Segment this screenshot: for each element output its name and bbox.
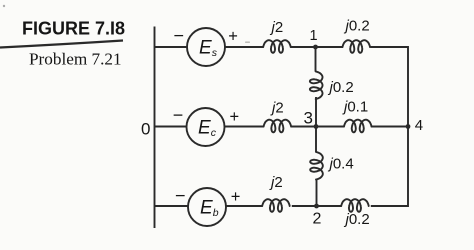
smudge bbox=[245, 42, 250, 43]
wire mid row coil to node 3 to coil bbox=[291, 126, 344, 128]
svg-text:j2: j2 bbox=[270, 19, 284, 36]
svg-text:−: − bbox=[174, 26, 185, 46]
svg-text:j0.4: j0.4 bbox=[328, 156, 354, 173]
svg-text:−: − bbox=[173, 105, 184, 125]
svg-text:2: 2 bbox=[313, 210, 322, 227]
inductor j0.4 vertical bbox=[310, 152, 323, 180]
wire mid row coil to node 4 bbox=[371, 126, 408, 128]
wire bottom row source to coil bbox=[226, 205, 262, 207]
wire top row left stub bbox=[155, 46, 188, 48]
wire bottom row left stub bbox=[155, 205, 188, 207]
inductor j2 bottom bbox=[262, 199, 290, 212]
svg-text:1: 1 bbox=[310, 28, 318, 44]
left bus wire bbox=[154, 27, 156, 229]
right bus wire bbox=[370, 47, 408, 206]
svg-text:Problem 7.21: Problem 7.21 bbox=[29, 50, 122, 69]
svg-text:j2: j2 bbox=[270, 100, 284, 117]
caption underline rule bbox=[0, 41, 123, 48]
svg-text:4: 4 bbox=[415, 117, 423, 134]
wire node 3 to vertical coil bbox=[315, 127, 317, 153]
wire vertical coil to node 3 bbox=[315, 97, 317, 127]
svg-text:+: + bbox=[228, 28, 238, 46]
source Eb bbox=[188, 188, 226, 226]
wire vertical coil to node 2 bbox=[316, 179, 318, 207]
inductor j0.2 vertical bbox=[310, 72, 323, 100]
inductor j0.2 top bbox=[343, 40, 371, 53]
source Ec bbox=[187, 108, 225, 146]
wire mid row left stub bbox=[155, 126, 187, 128]
svg-text:Eb: Eb bbox=[200, 198, 219, 220]
inductor j0.1 bbox=[344, 120, 372, 133]
wire top row source to coil bbox=[225, 46, 263, 48]
node 2 junction bbox=[314, 204, 319, 209]
svg-text:j0.2: j0.2 bbox=[328, 79, 354, 96]
inductor j2 mid bbox=[264, 120, 292, 133]
svg-text:j0.2: j0.2 bbox=[344, 211, 370, 228]
speck bbox=[3, 5, 5, 7]
svg-text:+: + bbox=[231, 188, 241, 206]
wire bottom row coil to node 2 to coil bbox=[292, 205, 341, 207]
svg-text:Ec: Ec bbox=[198, 118, 217, 140]
source Es bbox=[187, 28, 225, 66]
svg-text:−: − bbox=[175, 186, 186, 206]
node 1 junction bbox=[313, 45, 318, 50]
node 3 junction bbox=[314, 124, 319, 129]
wire top row coil to node 1 to coil bbox=[291, 46, 343, 48]
svg-text:0: 0 bbox=[141, 119, 150, 138]
wire mid row source to coil bbox=[225, 126, 264, 128]
node 4 junction bbox=[406, 124, 411, 129]
svg-text:j0.1: j0.1 bbox=[342, 99, 368, 116]
svg-text:j0.2: j0.2 bbox=[344, 18, 370, 35]
svg-text:Es: Es bbox=[199, 38, 218, 60]
inductor j2 top bbox=[263, 40, 291, 53]
svg-text:j2: j2 bbox=[269, 174, 283, 191]
svg-text:+: + bbox=[230, 108, 240, 126]
wire node 1 to vertical coil bbox=[315, 47, 317, 72]
inductor j0.2 bottom bbox=[341, 199, 369, 212]
svg-text:FIGURE 7.I8: FIGURE 7.I8 bbox=[22, 19, 125, 39]
svg-text:3: 3 bbox=[304, 108, 313, 127]
